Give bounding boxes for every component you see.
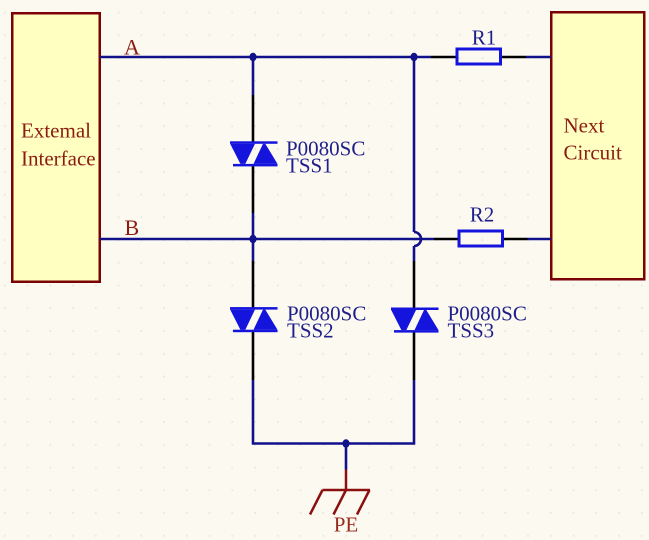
pin stub: TSS3 bottom (413, 333, 416, 381)
svg-text:B: B (125, 215, 140, 240)
svg-text:Interface: Interface (21, 147, 96, 171)
wire: net A horizontal (100, 56, 431, 59)
svg-text:TSS3: TSS3 (448, 318, 495, 342)
junction dot bottom bus (342, 439, 349, 447)
wire hop over net B (414, 232, 421, 246)
svg-text:R2: R2 (470, 203, 495, 227)
resistor R2 (459, 231, 503, 246)
wire: TSS2 to bottom bus (252, 380, 255, 445)
junction dot B-left (249, 235, 256, 243)
svg-text:A: A (124, 35, 140, 60)
TSS1 P0080SC symbol (230, 141, 278, 166)
junction dot A-left (249, 53, 256, 61)
svg-text:TSS2: TSS2 (287, 318, 334, 342)
wire: left vertical A to TSS1 (252, 57, 255, 95)
wire: right vertical A to hop (413, 57, 416, 232)
wire: bottom bus (252, 442, 415, 445)
pin stub: TSS1 top (252, 95, 255, 143)
pin stub: R2 left (434, 238, 458, 241)
svg-text:Circuit: Circuit (564, 141, 622, 165)
svg-text:Next: Next (564, 114, 605, 138)
pin stub: TSS3 top (413, 261, 416, 309)
wire: R2 to Next Circuit (528, 238, 552, 241)
pin stub: TSS1 bottom (252, 166, 255, 213)
pin stub: R1 right (502, 56, 526, 59)
wire: TSS1 to B junction to TSS2 (252, 213, 255, 261)
wire: TSS3 to bottom bus (413, 380, 416, 445)
svg-text:PE: PE (334, 513, 359, 537)
ground PE symbol (310, 470, 370, 515)
wire: R1 to Next Circuit (526, 56, 551, 59)
wire: hop to TSS3 (413, 246, 416, 261)
TSS3 P0080SC symbol (391, 308, 439, 333)
sheet symbol: Next Circuit box (551, 12, 644, 279)
wire: net B horizontal (100, 238, 434, 241)
pin stub: R1 left (431, 56, 456, 59)
svg-text:R1: R1 (472, 26, 497, 50)
svg-text:TSS1: TSS1 (286, 153, 333, 177)
svg-text:Extemal: Extemal (21, 119, 91, 143)
wire: stem to ground (345, 444, 348, 470)
pin stub: TSS2 top (252, 261, 255, 308)
resistor R1 (457, 49, 501, 64)
sheet symbol: Extemal Interface box (12, 13, 100, 282)
pin stub: TSS2 bottom (252, 332, 255, 380)
pin stub: R2 right (504, 238, 528, 241)
junction dot A-right (410, 53, 417, 61)
TSS2 P0080SC symbol (230, 307, 278, 332)
